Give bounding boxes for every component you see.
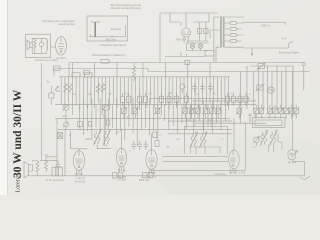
capacitor C41 xyxy=(56,160,61,166)
resistor R39 xyxy=(215,107,221,114)
resistor R41 xyxy=(155,141,159,147)
wire riser x70 xyxy=(71,131,88,149)
capacitor C33 xyxy=(144,141,149,151)
bus y161 xyxy=(162,161,228,163)
wire riser x245 xyxy=(241,109,246,170)
svg-text:Lautsprechers: Lautsprechers xyxy=(58,22,76,26)
resistor R35 xyxy=(188,107,194,114)
capacitor C32 xyxy=(138,141,143,151)
choke (Drossel) bar xyxy=(94,22,96,37)
tap fuse F4 xyxy=(230,40,237,43)
left frame wire xyxy=(41,63,43,160)
main rail C xyxy=(59,76,230,78)
coupling box on rail B xyxy=(84,71,90,75)
output choke loops xyxy=(46,40,47,51)
resistor R21 xyxy=(226,96,230,102)
AF transformer W3a xyxy=(190,132,198,148)
IF transformer W1b xyxy=(103,130,111,146)
wire xyxy=(170,13,181,26)
output transformer W2a xyxy=(260,131,268,147)
terminal box on rail A xyxy=(101,60,109,64)
resistor zigzag pair A xyxy=(64,84,73,93)
coil L1 on rail C xyxy=(72,73,80,77)
output transformer W2b xyxy=(269,131,277,147)
IF transformer W1a xyxy=(93,130,101,146)
wire riser x65 xyxy=(64,130,66,176)
Tr secondary taps xyxy=(225,17,245,47)
resistor R45 xyxy=(45,160,48,172)
resistor R11 xyxy=(121,96,125,102)
resistor R17 xyxy=(175,96,179,102)
wire drop xyxy=(54,63,69,78)
fuse box Si xyxy=(205,51,214,57)
wire risers to AF transformer xyxy=(186,119,211,154)
resistor R38 xyxy=(209,107,215,114)
wire to aerial hook xyxy=(293,159,305,176)
variable capacitor CV1 xyxy=(63,104,70,111)
trimmer arrow xyxy=(55,86,59,90)
antenna symbol xyxy=(91,21,101,23)
tap fuse F2 xyxy=(230,28,237,31)
coil L2 on rail C xyxy=(85,73,93,77)
padding capacitor C2 xyxy=(49,93,54,98)
cathode resistor boxes under V5 xyxy=(112,173,117,178)
resistor R318 xyxy=(293,107,299,114)
resistor R310 xyxy=(236,107,242,114)
aerial hook xyxy=(300,176,311,179)
svg-text:Schaltung des eingebauten: Schaltung des eingebauten xyxy=(42,19,75,23)
resistor R317 xyxy=(288,107,294,114)
shield box (AF stage) xyxy=(185,127,228,155)
ground bus in box xyxy=(90,25,126,37)
box wiring xyxy=(32,38,46,53)
svg-text:RGN 354: RGN 354 xyxy=(176,39,187,42)
svg-text:Bei Ortsempfang wird die: Bei Ortsempfang wird die xyxy=(111,3,142,7)
right pot stubs xyxy=(256,105,296,119)
top supply rail xyxy=(160,12,218,14)
svg-text:5000: 5000 xyxy=(85,138,91,141)
crystal box xyxy=(58,133,63,139)
svg-text:(Ansicht von unten): (Ansicht von unten) xyxy=(35,58,58,62)
mains transformer Tr core xyxy=(222,16,224,48)
resistor R16 xyxy=(167,96,171,102)
svg-text:1M: 1M xyxy=(168,92,171,95)
resistor R23 xyxy=(238,96,242,102)
resistor R37 xyxy=(202,107,208,114)
resistor R36 xyxy=(195,107,201,114)
svg-text:RES 164: RES 164 xyxy=(139,179,150,182)
smoothing capacitor C-a xyxy=(198,22,202,41)
resistor R14 xyxy=(144,96,148,102)
bus y104 extension xyxy=(119,104,256,106)
tube top leads xyxy=(79,119,234,151)
coil former xyxy=(180,84,185,89)
resistor R50 xyxy=(78,122,83,127)
resistor R314 xyxy=(272,107,278,114)
cap stubs below gang xyxy=(66,110,106,129)
wire box to tube xyxy=(51,46,56,48)
label box L4 xyxy=(54,66,61,71)
svg-text:Antenne kurzgeschlossen: Antenne kurzgeschlossen xyxy=(110,6,141,10)
main rail A xyxy=(69,62,303,64)
svg-text:220 V~: 220 V~ xyxy=(261,24,271,28)
bus y133 xyxy=(168,133,232,135)
terminal dot xyxy=(302,62,305,65)
bus y118 xyxy=(55,118,230,120)
svg-text:4 V: 4 V xyxy=(282,37,287,41)
wire riser x292 xyxy=(292,109,294,150)
left page edge strip xyxy=(0,0,7,195)
capacitors C-row xyxy=(192,84,213,93)
wire stubs row1 xyxy=(123,93,247,106)
bus y121 xyxy=(168,120,232,122)
resistor R13 xyxy=(138,96,142,102)
switch frame inner xyxy=(255,120,282,126)
resistor R32 xyxy=(132,107,138,114)
switch wire xyxy=(288,41,293,48)
tube V4 (L416) xyxy=(73,151,84,175)
small cap left xyxy=(89,122,92,127)
tap fuse F1 xyxy=(230,22,237,25)
wire speaker top xyxy=(29,161,38,176)
heater bus xyxy=(165,52,205,57)
trimmer T2 xyxy=(63,122,68,128)
resistor R18 xyxy=(185,96,189,102)
shield box inner xyxy=(191,147,221,153)
AF transformer W3b xyxy=(199,132,207,148)
field coil zigzag in box xyxy=(34,40,37,50)
rectifier tube U-rect xyxy=(182,28,191,37)
main rail B xyxy=(54,68,148,70)
bus y101 xyxy=(192,100,256,102)
tube V8 (indicator) xyxy=(288,150,298,160)
wire bundle lower left xyxy=(80,98,158,146)
svg-text:600 Ohm: 600 Ohm xyxy=(106,38,116,41)
pickup jack J1 xyxy=(253,137,259,147)
switch frame outer xyxy=(253,118,286,128)
resistor R33 xyxy=(154,107,160,114)
bus y98 xyxy=(150,97,250,99)
bus y104 xyxy=(55,104,119,106)
svg-text:Fa 4041: Fa 4041 xyxy=(57,56,67,60)
capacitor block C40 xyxy=(52,167,63,176)
resistor R316 xyxy=(283,107,289,114)
bus y156 xyxy=(162,156,228,158)
resistor R311 xyxy=(253,107,259,114)
resistor R22 xyxy=(232,96,236,102)
svg-text:2M: 2M xyxy=(88,93,91,96)
svg-text:L 416 D: L 416 D xyxy=(75,176,84,180)
paper mottle xyxy=(155,134,320,210)
svg-text:(W 4032): (W 4032) xyxy=(75,179,86,183)
squiggle leads to V5 xyxy=(97,145,116,150)
speaker symbol in box xyxy=(27,40,32,50)
bus y170 xyxy=(150,169,245,171)
wire drop from terminal xyxy=(303,66,305,90)
AC source symbol xyxy=(268,87,274,93)
resistor R315 xyxy=(278,107,284,114)
loudspeaker diagram box xyxy=(25,34,50,57)
switch S1 on rail xyxy=(185,60,190,64)
svg-text:D. Zt. gemessen: D. Zt. gemessen xyxy=(46,179,65,182)
loudspeaker LS xyxy=(24,162,33,179)
field coil zigzag xyxy=(36,161,39,173)
variable capacitor CV2 xyxy=(102,104,109,111)
wire left drop xyxy=(159,13,161,63)
potentiometer P1 on rail xyxy=(257,62,266,70)
Tr primary leads xyxy=(210,17,220,63)
bus y123 xyxy=(196,122,266,124)
Tr secondary winding xyxy=(223,17,226,47)
cathode resistor boxes under V6 xyxy=(142,173,147,178)
Tr primary winding xyxy=(219,17,222,47)
potentiometer P2 xyxy=(256,84,265,92)
resistor R34 xyxy=(182,107,188,114)
pot row stubs xyxy=(124,105,239,119)
svg-text:0,1 MΩ: 0,1 MΩ xyxy=(118,179,126,182)
wire stub xyxy=(50,86,52,105)
hum coil circle xyxy=(39,42,43,46)
main rail B2 xyxy=(148,69,310,72)
wire risers right mid xyxy=(241,113,256,123)
output tube oval at box edge xyxy=(56,37,67,55)
resistor R24 xyxy=(244,96,248,102)
tap fuse F3 xyxy=(230,34,237,37)
resistor R31 xyxy=(121,107,127,114)
tube V6 (RES164) xyxy=(146,150,157,174)
tube V5 (REN904) xyxy=(117,148,127,171)
svg-text:Drossel: Drossel xyxy=(111,27,122,31)
svg-text:Antennen-Sperrkreis: Antennen-Sperrkreis xyxy=(100,43,126,47)
dial lamp La2 xyxy=(198,44,203,49)
title Lorenz 30 W und 30/II W (rotated) xyxy=(12,89,24,192)
dial lamp La1 xyxy=(190,44,195,49)
wire speaker to grid xyxy=(40,119,57,176)
antenna option box xyxy=(87,16,128,41)
svg-text:Brummton-Regler: Brummton-Regler xyxy=(279,50,300,54)
wire bundle (output stage) xyxy=(241,66,293,111)
svg-text:500: 500 xyxy=(56,90,61,93)
resistor R12 xyxy=(127,96,131,102)
small cap on riser xyxy=(106,120,110,125)
wire bundle (tuning stages) xyxy=(61,63,228,116)
bus y129 xyxy=(58,129,232,131)
wire rail right lower xyxy=(250,66,293,110)
capacitor C31 xyxy=(132,141,137,151)
grid stopper box xyxy=(153,132,157,138)
resistor R312 xyxy=(258,107,264,114)
lamp wiring xyxy=(187,43,209,51)
jack risers xyxy=(263,134,282,153)
smoothing capacitor C-b xyxy=(204,22,208,41)
svg-text:30 W und 30/II W: 30 W und 30/II W xyxy=(12,89,24,178)
mains lead 220V xyxy=(243,22,285,25)
tube V7 (RES164) xyxy=(229,150,239,173)
wire bundle lower mid xyxy=(165,101,226,134)
resistor zigzag pair B xyxy=(96,84,105,93)
resistor R313 xyxy=(267,107,273,114)
resistor R15 xyxy=(160,96,164,102)
mains bottom wire xyxy=(243,48,288,54)
ground rail bottom xyxy=(29,175,306,177)
inductor L3 vertical xyxy=(132,63,135,82)
svg-text:Wellenschalter in Stellung K: Wellenschalter in Stellung K xyxy=(92,53,126,57)
